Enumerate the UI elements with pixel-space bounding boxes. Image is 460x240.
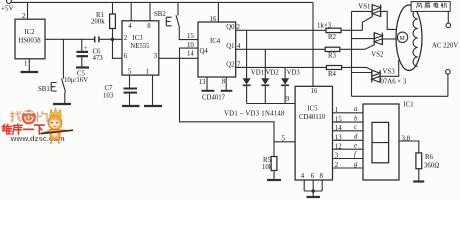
node AC220V top terminal [446, 11, 451, 27]
svg-text:e: e [354, 142, 357, 149]
wire IC4 pin8 to ground [225, 77, 227, 90]
motor fan M [396, 5, 422, 71]
node fan motor label box [411, 2, 450, 12]
wire IC2 pin1 to ground [28, 59, 30, 72]
svg-text:R3: R3 [328, 53, 337, 60]
wire IC3 pin5 drop [129, 75, 131, 88]
resistor R1 200k [91, 2, 115, 39]
svg-text:15: 15 [187, 33, 194, 40]
svg-text:Q2: Q2 [226, 62, 235, 69]
svg-text:5: 5 [282, 136, 286, 143]
svg-text:NE555: NE555 [130, 43, 150, 50]
wire IC4 pin16 feed [217, 2, 219, 22]
wire IC5 seg g [333, 167, 364, 169]
svg-text:9: 9 [286, 96, 290, 103]
svg-text:SB1: SB1 [38, 86, 50, 93]
wire IC5 seg e [333, 148, 364, 150]
svg-text:Q1: Q1 [226, 43, 234, 50]
watermark dzsc logo [3, 108, 73, 144]
svg-text:IC1: IC1 [404, 102, 414, 109]
svg-text:360Ω: 360Ω [424, 163, 439, 170]
svg-text:12: 12 [335, 143, 342, 150]
wire IC2 output run [45, 38, 95, 40]
node junction ground bus [312, 189, 315, 192]
svg-text:8: 8 [320, 173, 324, 180]
ground IC5 [307, 196, 321, 198]
IC U2: IC3 NE555 timer [122, 21, 159, 76]
svg-text:R2: R2 [328, 34, 337, 41]
svg-text:2: 2 [335, 162, 339, 169]
wire +5V top rail [11, 1, 313, 3]
resistor R6 360ohm [416, 153, 439, 181]
thyristor VS1 [352, 4, 397, 31]
svg-text:2: 2 [124, 35, 128, 42]
wire triac anode bus [351, 11, 353, 96]
svg-text:VD3: VD3 [287, 70, 301, 77]
node AC220V bottom terminal [446, 70, 451, 97]
wire IC5 seg a [333, 112, 364, 114]
svg-text:IC3: IC3 [133, 35, 144, 42]
ground IC4 pin8 [221, 90, 233, 92]
svg-text:1k×3: 1k×3 [317, 23, 332, 30]
wire IC5 seg c [333, 130, 364, 132]
wire pin2-pin6 tie [113, 39, 123, 58]
svg-text:13: 13 [199, 79, 206, 86]
wire IC2 pin2 feed [27, 2, 29, 19]
wire Q0 row [236, 29, 326, 31]
svg-text:14: 14 [187, 50, 194, 57]
ground C5 [76, 66, 89, 68]
svg-text:6: 6 [124, 53, 128, 60]
svg-text:IC4: IC4 [210, 38, 221, 45]
svg-text:CD40110: CD40110 [299, 114, 326, 121]
svg-text:g: g [354, 161, 358, 168]
wire IC5 pins 4 6 8 to ground [304, 180, 322, 196]
node junction R1/pin2 [111, 38, 115, 42]
mascot [41, 108, 74, 144]
svg-text:13: 13 [335, 135, 342, 142]
svg-text:473: 473 [93, 55, 104, 62]
svg-text:10μ/16V: 10μ/16V [64, 77, 88, 84]
capacitor C5 electrolytic [64, 39, 88, 84]
IC U1: IC2 HS0038 infrared receiver [15, 19, 45, 59]
node IC5 right pin numbers [335, 107, 342, 169]
diode VD3 [281, 67, 300, 103]
wire IC5 pin16 feed [312, 2, 314, 86]
thyristor VS2 [352, 33, 397, 59]
svg-text:3: 3 [335, 153, 339, 160]
wire IC4 pin13 to ground [206, 77, 208, 90]
svg-text:c: c [354, 124, 357, 131]
svg-text:5: 5 [128, 68, 132, 75]
svg-text:SB2: SB2 [154, 11, 166, 18]
wire Q1 row [236, 48, 326, 50]
svg-text:Q4: Q4 [200, 48, 209, 55]
wire IC5 seg d [333, 139, 364, 141]
svg-text:97A6 × 3: 97A6 × 3 [381, 79, 407, 86]
capacitor C6 473 series [93, 36, 104, 62]
svg-text:d: d [354, 134, 358, 141]
wire bottom AC rail [352, 95, 449, 97]
ground IC4 pin13 [202, 90, 215, 92]
ground R5 [267, 179, 281, 181]
svg-text:10k: 10k [262, 164, 273, 171]
+5V supply terminal [1, 0, 14, 12]
top orange outline characters [10, 111, 21, 121]
wire IC3 pin8 feed [149, 2, 151, 20]
svg-text:IC2: IC2 [24, 29, 35, 36]
svg-text:R6: R6 [425, 154, 434, 161]
ground IC2 [21, 71, 39, 73]
svg-text:15: 15 [335, 116, 342, 123]
display IC1 seven-segment [363, 102, 414, 181]
svg-text:a: a [354, 106, 358, 113]
svg-text:M: M [400, 36, 406, 42]
svg-text:VD2: VD2 [266, 70, 280, 77]
svg-text:AC 220V: AC 220V [432, 43, 458, 50]
svg-text:1: 1 [146, 68, 149, 75]
switch SB2 [154, 2, 198, 39]
IC U4: IC5 CD40110 counter/display driver [295, 86, 332, 180]
svg-text:4: 4 [128, 23, 132, 30]
svg-text:1: 1 [335, 107, 338, 114]
capacitor C7 103 [103, 85, 137, 105]
svg-text:16: 16 [311, 88, 318, 95]
ground C7 [122, 105, 140, 107]
svg-text:VD1: VD1 [251, 70, 264, 77]
resistor R3 [325, 47, 365, 59]
wire IC1 common to R6 [399, 141, 419, 153]
svg-text:VS1: VS1 [358, 4, 370, 11]
diode VD1 [243, 30, 264, 103]
IC U3: IC4 CD4017 decade counter [198, 22, 236, 77]
svg-text:200k: 200k [91, 19, 105, 26]
resistor R2 [317, 23, 362, 41]
switch SB1 [38, 39, 66, 103]
svg-text:1: 1 [24, 61, 27, 68]
red 'weiku yixia' characters with white halo [3, 124, 45, 134]
svg-text:8: 8 [222, 79, 226, 86]
thyristor VS3 [352, 60, 399, 82]
wire IC3 pin4 feed [130, 2, 132, 20]
wire IC3 pin3 to IC4 pin14 [159, 57, 198, 59]
ground SB1 [53, 103, 71, 105]
svg-text:8: 8 [147, 23, 151, 30]
svg-text:3: 3 [154, 53, 158, 60]
svg-text:VD1 – VD3 1N4148: VD1 – VD3 1N4148 [224, 111, 285, 118]
svg-text:VS2: VS2 [371, 52, 384, 59]
svg-text:4: 4 [301, 173, 305, 180]
wire diode bus to IC5 pin9 [247, 103, 296, 105]
wire Q2 row [236, 66, 327, 68]
resistor R4 [326, 66, 366, 79]
wire IC3 pin1 to ground [152, 75, 154, 105]
svg-text:6: 6 [311, 173, 315, 180]
svg-text:14: 14 [335, 125, 342, 132]
svg-text:+5V: +5V [1, 5, 14, 13]
svg-text:HS0038: HS0038 [18, 38, 41, 45]
svg-text:VS3: VS3 [383, 69, 396, 76]
wire IC5 seg b [333, 121, 364, 123]
svg-text:CD4017: CD4017 [202, 95, 226, 102]
svg-text:R4: R4 [328, 71, 337, 78]
wire IC5 seg f [333, 158, 364, 160]
ground R6 [413, 180, 424, 182]
diode VD2 [261, 49, 279, 103]
wire C6 to IC3 pin2 [99, 38, 122, 40]
svg-text:b: b [354, 115, 358, 122]
node segment letters [354, 106, 358, 168]
svg-text:16: 16 [210, 16, 217, 23]
svg-text:IC5: IC5 [307, 106, 318, 113]
svg-text:C7: C7 [105, 85, 114, 92]
resistor R5 10k [262, 142, 277, 179]
svg-text:Q0: Q0 [226, 24, 235, 31]
svg-text:103: 103 [103, 93, 114, 100]
wire Q4 loop to IC5 pin5 [180, 48, 296, 142]
ground IC3 pin1 [144, 105, 162, 107]
